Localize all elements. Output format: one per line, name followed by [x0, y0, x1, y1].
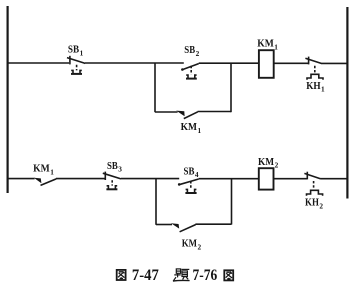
svg-text:4: 4	[195, 170, 199, 179]
svg-text:2: 2	[275, 161, 279, 170]
contact KM1 (NO interlock, bottom rung)	[34, 178, 56, 186]
pushbutton SB1 (NC stop button)	[67, 56, 85, 74]
right supply rail	[346, 7, 348, 199]
svg-text:KM: KM	[257, 38, 274, 50]
wire bottom rung: SB4 to coil KM2	[199, 178, 259, 180]
caption text 7-76	[193, 267, 218, 284]
svg-text:SB: SB	[184, 165, 195, 177]
label SB2	[184, 44, 199, 58]
label SB3	[107, 160, 122, 174]
svg-text:KH: KH	[305, 197, 319, 209]
svg-text:2: 2	[319, 201, 323, 210]
contact KM1 auxiliary (NO self-holding)	[176, 111, 198, 119]
wire branch bottom right	[198, 111, 231, 113]
svg-text:SB: SB	[184, 44, 195, 56]
svg-text:2: 2	[198, 242, 202, 251]
label KM2 (branch contact)	[182, 238, 202, 252]
left supply rail	[6, 6, 8, 193]
pushbutton SB4 (NO start button)	[178, 179, 199, 193]
caption hanzi TU (figure) second	[224, 270, 233, 280]
wire top rung: rail to SB1	[7, 62, 69, 64]
caption text 7-47	[132, 267, 159, 284]
label SB4	[184, 165, 199, 179]
caption hanzi TI (problem)	[173, 269, 190, 281]
svg-text:SB: SB	[107, 160, 118, 172]
contact KM2 auxiliary (NO self-holding)	[171, 223, 196, 232]
svg-text:1: 1	[274, 42, 278, 51]
svg-text:1: 1	[198, 126, 202, 135]
wire top rung: KH1 to right rail	[321, 62, 348, 64]
svg-text:7-76: 7-76	[193, 267, 218, 284]
branch right vertical wire (bottom rung)	[231, 179, 233, 225]
label KM2 (coil)	[258, 156, 279, 170]
wire bottom rung: rail to KM1 contact	[7, 178, 35, 180]
svg-text:KM: KM	[182, 238, 198, 250]
label KH1	[306, 80, 325, 94]
label KM1 (coil)	[257, 38, 278, 52]
wire branch bottom left	[155, 111, 178, 113]
branch left vertical wire (bottom rung)	[155, 179, 157, 225]
svg-text:KM: KM	[258, 156, 275, 168]
pushbutton SB3 (NC stop button)	[103, 172, 121, 190]
wire bottom rung: KM1 contact to SB3	[56, 178, 105, 180]
label KH2	[305, 197, 323, 211]
branch left vertical wire (junction at top rung)	[154, 63, 156, 112]
svg-text:1: 1	[50, 168, 54, 177]
thermal relay contact KH2 (NC)	[304, 172, 322, 196]
wire bottom rung: KH2 to right rail	[320, 178, 348, 180]
wire top rung: SB2 to coil KM1	[199, 62, 260, 64]
wire top rung: SB1 to SB2 (through branch junction)	[85, 62, 184, 64]
wire top rung: coil KM1 to KH1	[274, 62, 309, 64]
svg-text:KM: KM	[33, 163, 50, 175]
coil KM2	[259, 168, 274, 189]
svg-text:1: 1	[321, 85, 325, 94]
svg-text:7-47: 7-47	[132, 267, 159, 284]
pushbutton SB2 (NO start button)	[181, 64, 199, 79]
wire lower branch bottom right	[195, 223, 231, 225]
label SB1	[68, 44, 84, 58]
wire bottom rung: coil KM2 to KH2	[274, 178, 307, 180]
svg-text:SB: SB	[68, 44, 80, 56]
svg-text:1: 1	[80, 48, 84, 57]
coil KM1	[259, 50, 274, 78]
svg-text:2: 2	[196, 49, 200, 58]
caption hanzi TU (figure) first	[117, 270, 126, 280]
svg-text:KM: KM	[181, 121, 198, 133]
label KM1 (branch contact)	[181, 121, 202, 135]
svg-text:3: 3	[118, 165, 122, 174]
label KM1 (bottom left contact)	[33, 163, 54, 177]
wire bottom rung: SB3 to SB4 (through branch junction)	[121, 178, 179, 180]
wire lower branch bottom left	[156, 224, 172, 226]
thermal relay contact KH1 (NC)	[305, 57, 323, 80]
svg-text:KH: KH	[306, 80, 321, 92]
branch right vertical wire	[230, 63, 232, 112]
